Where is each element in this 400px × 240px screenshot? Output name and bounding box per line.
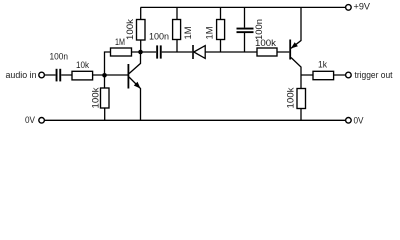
- svg-text:0V: 0V: [25, 115, 36, 126]
- svg-text:100k: 100k: [125, 19, 136, 40]
- svg-text:1M: 1M: [115, 37, 125, 48]
- svg-text:+9V: +9V: [354, 2, 371, 13]
- svg-text:0V: 0V: [354, 115, 365, 126]
- svg-text:100n: 100n: [254, 19, 265, 40]
- svg-text:1k: 1k: [318, 60, 327, 71]
- svg-text:100k: 100k: [91, 87, 102, 108]
- svg-text:10k: 10k: [76, 60, 89, 71]
- svg-text:audio in: audio in: [6, 70, 37, 81]
- svg-text:100n: 100n: [149, 32, 169, 43]
- svg-text:100n: 100n: [50, 52, 69, 63]
- svg-text:1M: 1M: [205, 26, 216, 39]
- svg-text:trigger out: trigger out: [355, 70, 393, 81]
- svg-text:100k: 100k: [286, 87, 297, 108]
- svg-text:1M: 1M: [183, 26, 194, 39]
